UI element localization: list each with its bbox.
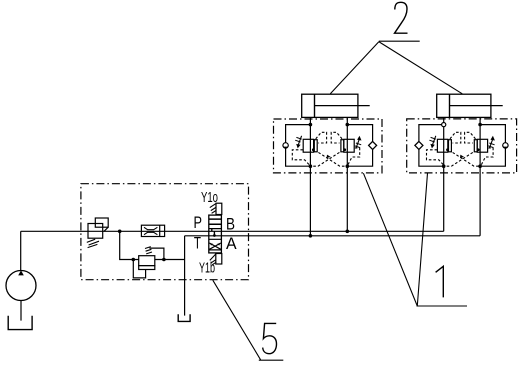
counterbalance valve CB1 [303,139,313,152]
counterbalance valve CB3 [437,139,447,152]
counterbalance block 1a (left, dash-dot) [274,119,383,173]
CB3 spring and arrow [433,136,436,145]
solenoid Y1b coil [216,254,222,265]
node V3 inlet junction [132,258,136,262]
CB1 pilot dashes [316,132,327,143]
svg-text:Y1o: Y1o [201,189,218,206]
CB2 spring and arrow [356,139,359,148]
CB2 pilot dashes [331,132,342,143]
CB3 pilot dashes [450,132,461,143]
pilot relief valve V3 [139,247,164,270]
leader lines for label 1 [363,173,467,306]
wire check bypass loop left [419,125,444,167]
CB1 spring and arrow [298,136,301,145]
svg-text:A: A [226,235,237,253]
wire check bypass loop left [286,125,311,167]
solenoid valve U1 (4/3 directional) [209,203,222,265]
label 1 [436,266,444,297]
node rail junction left-box left leg [309,234,313,238]
node dots [309,123,313,127]
wire branch to pilot relief [120,231,139,259]
label 2 [395,2,408,33]
label 5 [263,323,277,353]
svg-text:Y1b: Y1b [199,260,215,277]
port diamond [369,141,377,149]
wire P rail (upper main line) [21,230,444,232]
svg-text:P: P [194,214,203,232]
wire V3 drain loop [133,260,145,278]
counterbalance valve CB2 [344,139,354,152]
right block internals [415,117,508,235]
tank T2 [178,314,190,321]
node V3 pilot junction [162,258,166,262]
cylinder C1 [302,94,370,117]
check ball port (circle) [503,143,508,148]
solenoid Y1o coil [216,203,222,214]
check ball port (circle) [283,143,288,148]
wire T drain vertical [184,236,186,316]
left block internals [283,117,377,235]
counterbalance valve CB4 [477,139,487,152]
pump P [6,270,36,300]
cylinder C2 [437,94,503,117]
flow control valve V2 [141,225,164,236]
CB4 spring and arrow [490,139,493,148]
leader lines for label 2 [330,41,462,94]
port diamond [415,141,423,149]
CB4 pilot dashes [465,132,476,143]
tank T1 [8,316,32,330]
svg-text:B: B [226,216,235,234]
wire leg cylinder C1 head-side [346,117,348,231]
wire pump outlet vertical [20,231,22,270]
wire check bypass loop right [347,125,372,167]
enclosure box 5 (dash-dot) [81,184,249,280]
wire leg cylinder C1 rod-side [309,117,311,235]
wire check bypass loop right [480,125,505,167]
relief valve V1 [87,218,108,248]
leader line for label 5 [213,280,283,360]
counterbalance block 1b (right, dash-dot) [407,119,517,173]
wire V3 outlet to T [155,259,185,261]
node dots [442,123,446,127]
wire leg cylinder C2 rod-side [443,117,445,231]
pilot arrowhead [327,155,331,158]
node rail junction left-box right leg [346,230,350,234]
wire leg cylinder C2 head-side [479,117,481,235]
svg-text:T: T [194,235,201,253]
pilot arrowhead [460,155,464,158]
node junction P-branch [118,230,122,234]
wire A rail (lower main line) [185,235,481,237]
wire pump to tank [20,300,22,320]
